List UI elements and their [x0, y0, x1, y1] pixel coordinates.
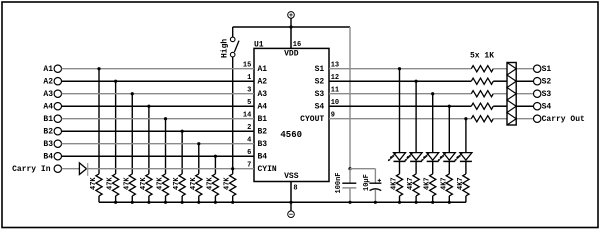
wire A4 to resistor — [148, 106, 150, 174]
junction S2 LED branch — [415, 80, 418, 83]
svg-text:47K: 47K — [206, 177, 214, 190]
resistor 4K7 1 — [391, 161, 403, 196]
svg-text:8: 8 — [293, 184, 297, 192]
-V supply terminal — [288, 202, 295, 217]
terminal B2 — [43, 128, 61, 137]
wire switch to CYIN — [232, 57, 234, 169]
wire A3 to pin 3 — [62, 93, 255, 95]
capacitor C1 100nF — [335, 169, 356, 203]
wire 4K7 1 to rail — [399, 196, 401, 202]
junction rail 4K7 1 — [398, 201, 401, 204]
+V supply terminal — [288, 12, 295, 27]
wire resistor 3 to ground rail — [131, 196, 133, 202]
wire connector to terminal S2 — [516, 80, 533, 82]
junction A4 pulldown — [147, 105, 150, 108]
connector J1 output header — [507, 63, 516, 126]
label 5x 1K — [470, 51, 494, 60]
wire A2 to pin 1 — [62, 80, 255, 82]
resistor 1K 4 — [471, 103, 493, 109]
terminal B4 — [43, 153, 61, 162]
svg-text:CYIN: CYIN — [258, 165, 277, 174]
svg-text:S2: S2 — [315, 78, 325, 87]
wire connector to terminal S3 — [516, 93, 533, 95]
svg-text:47K: 47K — [157, 177, 165, 190]
junction A2 pulldown — [114, 80, 117, 83]
terminal A3 — [43, 90, 61, 99]
svg-text:A4: A4 — [258, 103, 268, 112]
svg-text:S4: S4 — [542, 103, 552, 112]
svg-text:S3: S3 — [542, 90, 552, 99]
svg-text:High: High — [221, 39, 230, 58]
svg-text:4K7: 4K7 — [407, 177, 415, 190]
svg-text:16: 16 — [293, 41, 301, 49]
wire 1K to connector pin 2 — [493, 80, 507, 82]
wire 1K to connector pin 1 — [493, 68, 507, 70]
resistor 4K7 4 — [440, 161, 452, 196]
wire resistor 2 to ground rail — [115, 196, 117, 202]
svg-text:B2: B2 — [258, 128, 268, 137]
junction VDD rail / pin16 — [289, 25, 292, 28]
svg-text:S2: S2 — [542, 78, 552, 87]
terminal A1 — [43, 65, 61, 74]
junction CYIN pulldown — [231, 167, 234, 170]
svg-text:47K: 47K — [173, 177, 181, 190]
svg-text:B1: B1 — [258, 115, 268, 124]
LED 1 — [388, 153, 406, 162]
wire 1K to connector pin 4 — [493, 105, 507, 107]
svg-text:B4: B4 — [43, 153, 53, 162]
wire Carry Out to LED 5 — [465, 119, 467, 153]
resistor 47K pulldown 6 — [173, 174, 185, 196]
wire 4K7 4 to rail — [448, 196, 450, 202]
svg-text:S4: S4 — [315, 103, 325, 112]
junction C2 / rail — [374, 201, 377, 204]
svg-text:4K7: 4K7 — [424, 177, 432, 190]
junction A1 pulldown — [97, 67, 100, 70]
junction B3 pulldown — [197, 142, 200, 145]
junction rail 47K 6 — [181, 201, 184, 204]
junction C1 / rail — [348, 201, 351, 204]
terminal S2 — [534, 78, 552, 87]
terminal S1 — [534, 65, 552, 74]
LED 5 — [454, 153, 472, 162]
wire B3 to pin 4 — [62, 143, 255, 145]
wire A2 to resistor — [115, 81, 117, 174]
junction A3 pulldown — [131, 92, 134, 95]
svg-text:A2: A2 — [43, 78, 53, 87]
wire S2 to LED 2 — [415, 81, 417, 152]
svg-text:B2: B2 — [43, 128, 53, 137]
junction VSS / rail — [289, 201, 292, 204]
svg-text:VSS: VSS — [284, 172, 299, 181]
wire Carry In to diode — [62, 168, 80, 170]
wire B1 to pin 14 — [62, 118, 255, 120]
wire VDD to caps — [349, 27, 351, 169]
wire B1 to resistor — [165, 119, 167, 174]
svg-text:B3: B3 — [43, 140, 53, 149]
resistor 1K 3 — [471, 91, 493, 97]
IC U1 4560 BCD adder — [243, 40, 339, 192]
svg-text:A2: A2 — [258, 78, 268, 87]
LED 2 — [404, 153, 422, 162]
junction rail 4K7 3 — [431, 201, 434, 204]
wire pin 16 stub — [290, 27, 292, 48]
resistor 1K 1 — [471, 66, 493, 72]
wire 4K7 2 to rail — [415, 196, 417, 202]
wire 4K7 5 to rail — [465, 196, 467, 202]
svg-text:A3: A3 — [43, 90, 53, 99]
svg-text:10µF: 10µF — [363, 174, 371, 191]
junction rail 47K 3 — [131, 201, 134, 204]
terminal Carry In — [12, 165, 61, 174]
svg-text:47K: 47K — [224, 177, 232, 190]
junction B2 pulldown — [181, 130, 184, 133]
junction rail 47K 4 — [147, 201, 150, 204]
svg-text:100nF: 100nF — [335, 172, 343, 193]
resistor 47K pulldown 2 — [107, 174, 119, 196]
svg-text:S3: S3 — [315, 90, 325, 99]
resistor 47K pulldown 4 — [140, 174, 152, 196]
wire resistor 7 to ground rail — [198, 196, 200, 202]
wire resistor 4 to ground rail — [148, 196, 150, 202]
svg-text:B1: B1 — [43, 115, 53, 124]
svg-text:47K: 47K — [190, 177, 198, 190]
svg-text:4K7: 4K7 — [457, 177, 465, 190]
wire pin 13 (S1) — [329, 68, 471, 70]
svg-text:S1: S1 — [542, 65, 552, 74]
junction Carry Out LED branch — [464, 117, 467, 120]
resistor 47K pulldown 3 — [123, 174, 135, 196]
wire 1K to connector pin 3 — [493, 93, 507, 95]
terminal B3 — [43, 140, 61, 149]
switch High (carry-in set) — [221, 27, 240, 58]
svg-text:U1: U1 — [254, 40, 264, 49]
resistor 47K pulldown 8 — [206, 174, 218, 196]
wire VSS pin 8 stub — [290, 182, 292, 203]
wire B2 to resistor — [181, 131, 183, 174]
svg-text:5x 1K: 5x 1K — [470, 51, 494, 60]
diode D1 — [79, 163, 87, 176]
resistor 47K pulldown 1 — [90, 174, 102, 196]
LED 3 — [421, 153, 439, 162]
wire resistor 1 to ground rail — [98, 196, 100, 202]
terminal Carry Out — [534, 115, 586, 124]
wire A3 to resistor — [131, 94, 133, 174]
svg-text:B4: B4 — [258, 153, 268, 162]
junction rail 4K7 2 — [415, 201, 418, 204]
svg-text:A1: A1 — [258, 65, 268, 74]
wire 1K to connector pin 5 — [493, 118, 507, 120]
resistor 4K7 2 — [407, 161, 419, 196]
wire B4 to pin 6 — [62, 155, 255, 157]
wire connector to terminal Carry Out — [516, 118, 533, 120]
terminal B1 — [43, 115, 61, 124]
svg-text:4K7: 4K7 — [391, 177, 399, 190]
junction S4 LED branch — [448, 105, 451, 108]
junction cap branch — [348, 167, 351, 170]
resistor 1K 5 — [471, 116, 493, 122]
wire resistor 9 to ground rail — [232, 196, 234, 202]
wire pin 10 (S4) — [329, 105, 471, 107]
wire VDD top rail — [233, 26, 350, 28]
svg-text:4560: 4560 — [280, 130, 302, 140]
svg-text:A3: A3 — [258, 90, 268, 99]
wire ground rail — [99, 201, 466, 203]
wire S1 to LED 1 — [399, 69, 401, 153]
terminal S4 — [534, 103, 552, 112]
wire 4K7 3 to rail — [432, 196, 434, 202]
svg-text:B3: B3 — [258, 140, 268, 149]
wire pin 12 (S2) — [329, 80, 471, 82]
wire A1 to pin 15 — [62, 68, 255, 70]
wire diode to CYIN pin 7 — [87, 168, 255, 170]
wire connector to terminal S1 — [516, 68, 533, 70]
svg-text:A4: A4 — [43, 103, 53, 112]
junction rail 47K 2 — [114, 201, 117, 204]
capacitor C2 10uF polarized — [363, 169, 381, 203]
wire cap branch to C2 — [350, 168, 375, 170]
resistor 47K pulldown 9 — [224, 174, 236, 196]
svg-text:A1: A1 — [43, 65, 53, 74]
resistor 4K7 5 — [457, 161, 469, 196]
svg-text:47K: 47K — [140, 177, 148, 190]
junction B1 pulldown — [164, 117, 167, 120]
svg-text:Carry Out: Carry Out — [542, 115, 585, 124]
svg-text:47K: 47K — [107, 177, 115, 190]
wire S3 to LED 3 — [432, 94, 434, 153]
junction rail 47K 7 — [197, 201, 200, 204]
wire resistor 8 to ground rail — [214, 196, 216, 202]
svg-text:47K: 47K — [123, 177, 131, 190]
junction rail 47K 9 — [231, 201, 234, 204]
terminal A4 — [43, 103, 61, 112]
junction rail 47K 5 — [164, 201, 167, 204]
resistor 47K pulldown 5 — [157, 174, 169, 196]
junction rail 4K7 4 — [448, 201, 451, 204]
wire A1 to resistor — [98, 69, 100, 174]
wire CYIN to resistor — [232, 169, 234, 174]
wire S4 to LED 4 — [448, 106, 450, 152]
wire pin 11 (S3) — [329, 93, 471, 95]
resistor 1K 2 — [471, 78, 493, 84]
junction rail 47K 8 — [214, 201, 217, 204]
wire pin 9 (Carry Out) — [329, 118, 471, 120]
svg-text:VDD: VDD — [284, 50, 299, 59]
junction B4 pulldown — [214, 155, 217, 158]
wire connector to terminal S4 — [516, 105, 533, 107]
junction S3 LED branch — [431, 92, 434, 95]
wire B2 to pin 2 — [62, 130, 255, 132]
LED 4 — [438, 153, 456, 162]
svg-text:CYOUT: CYOUT — [300, 115, 324, 124]
svg-text:S1: S1 — [315, 65, 325, 74]
resistor 4K7 3 — [424, 161, 436, 196]
terminal A2 — [43, 78, 61, 87]
wire resistor 5 to ground rail — [165, 196, 167, 202]
wire B4 to resistor — [214, 156, 216, 174]
wire resistor 6 to ground rail — [181, 196, 183, 202]
wire B3 to resistor — [198, 144, 200, 174]
svg-text:47K: 47K — [90, 177, 98, 190]
resistor 47K pulldown 7 — [190, 174, 202, 196]
svg-text:4K7: 4K7 — [440, 177, 448, 190]
svg-text:Carry In: Carry In — [12, 165, 51, 174]
terminal S3 — [534, 90, 552, 99]
wire A4 to pin 5 — [62, 105, 255, 107]
junction S1 LED branch — [398, 67, 401, 70]
